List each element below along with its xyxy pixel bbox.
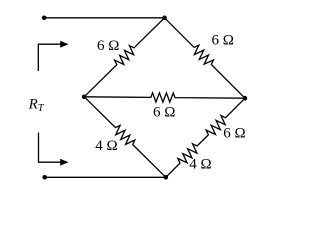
resistor R4 4 ohm (left node to bottom node) [84,97,166,178]
resistor R1 6 ohm (left node to top node) [84,18,164,97]
arrow bottom (RT current arrow) [39,133,62,163]
arrow top (RT current arrow) [38,44,61,71]
svg-text:4 Ω: 4 Ω [189,157,211,173]
svg-text:RT: RT [28,97,45,114]
node dot left [82,95,87,100]
node dot bottom-left terminal [42,175,47,180]
arrowhead top [60,41,68,48]
resistor R6 6 ohm (toward right node, upper) [202,98,245,141]
node dot top [162,15,167,20]
arrowhead bottom [60,159,68,166]
svg-text:6 Ω: 6 Ω [223,125,245,141]
node dot right [243,96,248,101]
wire top (terminal to top node) [44,17,164,19]
svg-text:4 Ω: 4 Ω [95,138,117,154]
svg-text:6 Ω: 6 Ω [212,33,234,49]
resistor R3 6 ohm (left node to right node, middle) [84,93,245,102]
resistor R5 4 ohm (bottom node toward right node, lower) [166,142,202,178]
node dot top-left terminal [42,15,47,20]
svg-text:6 Ω: 6 Ω [97,38,119,54]
svg-text:6 Ω: 6 Ω [153,104,175,120]
node dot bottom [164,175,169,180]
wire bottom (terminal to bottom node) [45,176,166,178]
resistor R2 6 ohm (top node to right node) [165,18,246,98]
